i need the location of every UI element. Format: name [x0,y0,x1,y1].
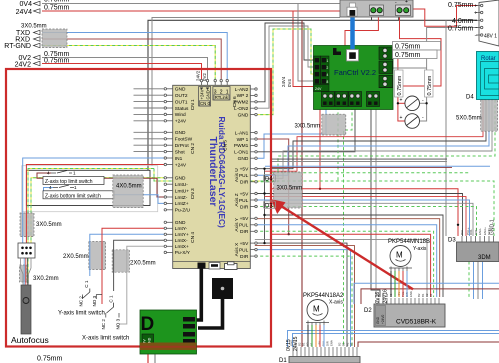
svg-text:0.75mm: 0.75mm [44,5,69,12]
svg-text:PUL: PUL [239,223,249,229]
svg-text:+5V: +5V [240,216,249,222]
svg-text:NC 2: NC 2 [101,319,106,330]
svg-text:ENA: ENA [409,291,413,297]
svg-text:Axis U: Axis U [234,168,240,182]
svg-text:24V2: 24V2 [195,70,200,81]
svg-text:0.75mm: 0.75mm [37,356,62,363]
svg-text:PWM1: PWM1 [234,143,249,149]
svg-text:D3: D3 [448,238,456,244]
svg-text:WP 2: WP 2 [237,93,249,99]
svg-text:Pu-Z/U: Pu-Z/U [175,208,191,214]
svg-text:D1: D1 [279,358,287,363]
svg-text:0V4: 0V4 [287,79,292,87]
svg-text:4X0.5mm: 4X0.5mm [116,184,142,190]
svg-text:Shot: Shot [175,149,186,155]
svg-text:D4: D4 [265,177,273,183]
svg-text:PKP544N18A2: PKP544N18A2 [303,293,344,299]
svg-text:NO 3: NO 3 [92,295,97,306]
svg-text:ENA: ENA [330,340,334,346]
svg-text:3X0.5mm: 3X0.5mm [21,24,47,30]
svg-text:FootSW: FootSW [175,137,193,143]
svg-text:4: 4 [327,73,329,77]
svg-text:24V4: 24V4 [16,9,32,16]
svg-text:C 1: C 1 [84,280,89,288]
svg-text:GND: GND [175,176,186,182]
svg-text:Axis Z: Axis Z [234,193,240,206]
svg-text:X-axis limit switch: X-axis limit switch [82,336,129,342]
svg-text:Pu-X/Y: Pu-X/Y [175,250,191,256]
svg-text:M: M [396,251,403,260]
svg-text:−: − [475,33,478,39]
svg-text:CN 3: CN 3 [190,188,196,199]
svg-text:D2: D2 [364,308,372,314]
svg-text:+24V0: +24V0 [381,314,385,324]
svg-text:CN 2: CN 2 [190,143,196,154]
svg-text:Z-axis bottom limit switch: Z-axis bottom limit switch [45,193,101,199]
svg-text:LmtU+: LmtU+ [175,188,189,194]
svg-text:24V: 24V [315,87,322,91]
svg-text:PUL: PUL [239,247,249,253]
svg-text:4: 4 [49,185,52,190]
svg-text:1: 1 [73,171,76,176]
svg-text:ThunderLaser: ThunderLaser [207,137,219,207]
svg-text:−: − [475,18,478,24]
svg-text:D4: D4 [466,95,474,101]
svg-text:3X0.5mm: 3X0.5mm [295,124,321,130]
svg-text:X-axis: X-axis [329,300,343,306]
svg-text:Wind: Wind [175,112,186,118]
svg-text:LmtZ-: LmtZ- [175,195,188,201]
svg-text:+24V: +24V [200,89,205,99]
svg-text:FanCtrl V2.2: FanCtrl V2.2 [334,68,376,77]
svg-text:0V2: 0V2 [202,73,207,81]
svg-text:LmtX+: LmtX+ [175,244,189,250]
svg-text:PUL: PUL [239,198,249,204]
svg-text:CVD518BR-K: CVD518BR-K [396,319,437,326]
svg-text:3X0.5mm: 3X0.5mm [277,186,303,192]
svg-text:DIR: DIR [240,229,249,235]
svg-text:DIR: DIR [240,180,249,186]
svg-text:PKP544MN18B: PKP544MN18B [388,239,430,245]
svg-text:1: 1 [74,185,77,190]
svg-text:RT-GND: RT-GND [4,43,31,50]
svg-text:0V4: 0V4 [20,1,33,8]
svg-text:0V16: 0V16 [375,292,381,304]
svg-text:−: − [475,26,478,32]
svg-text:GND: GND [175,130,186,136]
svg-text:48V 1: 48V 1 [484,34,497,40]
svg-text:Y-axis: Y-axis [413,246,427,252]
svg-text:CN 5: CN 5 [222,140,228,151]
svg-text:NO 3: NO 3 [115,318,120,329]
svg-text:OUT2: OUT2 [175,93,188,99]
svg-text:D: D [141,314,155,335]
svg-text:Y-axis limit switch: Y-axis limit switch [58,311,105,317]
svg-text:DIR: DIR [240,254,249,260]
svg-text:24V2: 24V2 [15,61,31,68]
svg-text:+5V: +5V [240,241,249,247]
svg-text:2: 2 [327,66,329,70]
svg-text:3X0.2mm: 3X0.2mm [33,276,59,282]
svg-text:+: + [474,11,477,17]
svg-text:DrProt: DrProt [175,143,190,149]
svg-text:CN 6: CN 6 [232,96,238,107]
svg-text:+: + [400,98,403,104]
svg-text:GND: GND [487,228,491,236]
svg-text:+24V: +24V [175,162,187,168]
svg-text:GND: GND [238,156,249,162]
svg-text:GND: GND [175,87,186,93]
svg-text:A1: A1 [429,293,433,297]
svg-text:1: 1 [327,59,329,63]
svg-text:PUL-: PUL- [460,228,464,235]
svg-text:RTLink: RTLink [215,95,229,100]
svg-text:2X0.5mm: 2X0.5mm [63,254,89,260]
svg-text:0.75mm: 0.75mm [448,26,473,33]
svg-text:+: + [405,0,408,5]
svg-text:PUL: PUL [239,173,249,179]
svg-text:0.75mm: 0.75mm [395,52,420,59]
svg-text:L-AN1: L-AN1 [235,130,249,136]
svg-text:L-AN2: L-AN2 [235,87,249,93]
svg-text:LmtZ+: LmtZ+ [175,201,189,207]
svg-text:GND: GND [175,220,186,226]
svg-text:OUT1: OUT1 [175,99,188,105]
svg-text:GND: GND [205,90,210,99]
svg-text:M: M [313,305,320,314]
svg-text:LmtX-: LmtX- [175,238,188,244]
svg-text:Axis Y: Axis Y [234,217,240,231]
svg-text:8: 8 [327,80,329,84]
svg-text:0V15: 0V15 [286,339,292,351]
svg-text:NC 2: NC 2 [78,296,83,307]
svg-text:+: + [474,4,477,10]
svg-text:CN 4: CN 4 [190,232,196,243]
svg-text:2X0.5mm: 2X0.5mm [130,261,156,267]
svg-text:D3: D3 [265,204,273,210]
svg-text:5X0.5mm: 5X0.5mm [456,116,482,122]
svg-text:0.75mm: 0.75mm [44,0,69,4]
svg-text:24V16: 24V16 [383,289,389,304]
svg-text:+: + [400,115,403,121]
svg-text:GND: GND [376,316,380,324]
svg-text:4.0mm: 4.0mm [452,18,474,25]
svg-text:24V4: 24V4 [281,76,286,87]
svg-text:3DM: 3DM [478,255,491,261]
svg-text:4: 4 [47,171,50,176]
svg-text:LmtY-: LmtY- [175,226,188,232]
svg-text:Rotar: Rotar [481,56,496,62]
svg-text:LmtU-: LmtU- [175,182,188,188]
svg-text:Axis X: Axis X [234,242,240,256]
svg-text:C 1: C 1 [108,295,113,303]
svg-text:DIR: DIR [240,204,249,210]
svg-text:CN 1: CN 1 [190,99,196,110]
svg-text:Autofocus: Autofocus [11,335,49,345]
svg-text:0.75mm: 0.75mm [427,75,433,95]
svg-text:3X0.5mm: 3X0.5mm [36,222,62,228]
svg-text:CN 0: CN 0 [200,101,211,106]
svg-text:+5V: +5V [240,191,249,197]
svg-text:LmtY+: LmtY+ [175,232,189,238]
svg-text:IN1: IN1 [175,156,183,162]
svg-text:A1: A1 [350,342,354,346]
svg-text:0.75mm: 0.75mm [397,75,403,95]
svg-text:GND: GND [238,112,249,118]
svg-text:L-ON1: L-ON1 [234,150,248,156]
svg-text:Z-axis top limit switch: Z-axis top limit switch [45,179,93,185]
svg-text:+24V: +24V [175,119,187,125]
svg-text:0.75mm: 0.75mm [448,2,473,9]
svg-text:0.75mm: 0.75mm [395,44,420,51]
svg-text:0.75mm: 0.75mm [44,57,69,64]
svg-text:+5V: +5V [240,167,249,173]
svg-text:DIR-: DIR- [469,229,473,235]
svg-text:24V15: 24V15 [293,336,299,351]
svg-text:Status: Status [175,106,189,112]
svg-text:ENA-: ENA- [478,228,482,235]
svg-text:WP 1: WP 1 [237,137,249,143]
